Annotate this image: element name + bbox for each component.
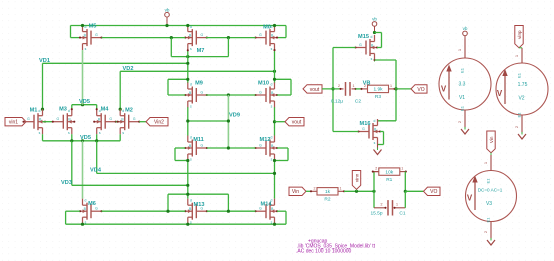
wire M7 gate to M0 gate (206, 37, 256, 39)
svg-text:s: s (190, 158, 192, 162)
svg-text:G: G (109, 117, 112, 121)
svg-text:2: 2 (314, 186, 316, 190)
svg-text:vb: vb (463, 26, 468, 31)
svg-text:M13: M13 (194, 202, 205, 208)
wire R1 right (404, 171, 407, 173)
wire vout stub (275, 121, 286, 123)
wire C1 up (404, 191, 406, 208)
wire M14 bracket drop (285, 211, 287, 224)
transistor M12 (256, 136, 278, 161)
svg-text:VO: VO (430, 189, 437, 195)
pin 1 V2 (521, 48, 523, 63)
junction bottom bus right (227, 210, 230, 213)
wire M9 source to M11 drain (187, 107, 189, 135)
wire riser right (227, 194, 229, 211)
svg-text:V1: V1 (459, 95, 465, 101)
wire M4 drain up (96, 105, 98, 110)
svg-text:vinp: vinp (517, 30, 522, 39)
svg-text:s: s (271, 105, 273, 109)
wire M10 bracket top (275, 78, 292, 80)
wire R1 down (404, 172, 406, 192)
wire ground rail (66, 223, 286, 225)
svg-text:G: G (362, 127, 365, 131)
wire diode link (168, 193, 228, 195)
wire down to C1 (373, 191, 375, 208)
wire M11 bracket bottom (175, 160, 188, 162)
svg-text:s: s (190, 47, 192, 51)
wire M11 source to M13 drain (187, 161, 189, 199)
svg-text:VD9: VD9 (229, 113, 240, 119)
svg-text:G: G (133, 117, 136, 121)
junction RC right (404, 190, 407, 193)
svg-text:G: G (200, 144, 203, 148)
wire M11 bracket left (174, 148, 176, 161)
svg-text:M6: M6 (88, 201, 96, 207)
wire M0 bulk stub (277, 37, 286, 39)
wire M9 bracket to bulk (168, 94, 185, 96)
junction VD1 (186, 62, 189, 65)
svg-text:d: d (190, 199, 192, 203)
wire M9 bracket left (167, 79, 169, 95)
junction VD5 top (81, 103, 84, 106)
svg-text:M1: M1 (30, 107, 38, 113)
wire M11 bracket (175, 147, 185, 149)
svg-text:d: d (39, 109, 41, 113)
resistor R1 rc top (373, 171, 379, 173)
svg-text:M11: M11 (193, 137, 204, 143)
junction vinn (355, 190, 358, 193)
svg-text:VD3: VD3 (61, 180, 72, 186)
wire vout to C2 (322, 88, 341, 90)
svg-text:vinn: vinn (354, 173, 359, 182)
svg-text:1.75: 1.75 (518, 82, 528, 88)
wire to M15 gate (333, 47, 356, 49)
transistor M6 (80, 199, 102, 224)
wire VD4 horizontal (97, 172, 275, 174)
svg-text:G: G (56, 117, 59, 121)
voltage source V2 (496, 63, 548, 115)
wire VD5 top horizontal (72, 104, 97, 106)
wire M5 bulk drop (70, 26, 72, 38)
wire R3 to VO (395, 88, 412, 90)
svg-text:1: 1 (396, 203, 398, 207)
svg-text:s: s (39, 131, 41, 135)
svg-text:1.9k: 1.9k (373, 87, 383, 93)
svg-text:G: G (359, 43, 362, 47)
svg-text:d: d (85, 199, 87, 203)
transistor M13 (185, 199, 207, 224)
svg-text:s: s (271, 158, 273, 162)
svg-text:d: d (190, 136, 192, 140)
wire vout feedback riser (332, 48, 334, 132)
svg-text:d: d (374, 119, 376, 123)
wire to M16 drain (378, 120, 397, 122)
wire M2 gate to Vin2 (139, 121, 146, 123)
wire up to R1 (373, 172, 375, 192)
svg-text:vout: vout (310, 87, 320, 93)
svg-text:V3: V3 (486, 201, 492, 207)
svg-text:3.3: 3.3 (459, 82, 466, 88)
junction M6 source rail (81, 223, 84, 226)
transistor M2 (118, 109, 140, 134)
transistor M9 (185, 83, 207, 108)
svg-text:d: d (122, 109, 124, 113)
power vb V1 (464, 36, 466, 39)
junction diode link (186, 193, 189, 196)
svg-text:d: d (68, 109, 70, 113)
junction M5 drain on rail (81, 24, 84, 27)
resistor R2 rc (311, 190, 317, 192)
wire Vin to R2 (306, 190, 311, 192)
svg-text:1: 1 (340, 186, 342, 190)
junction M7 drain loop (186, 55, 189, 58)
svg-text:VD2: VD2 (123, 66, 134, 72)
svg-text:vb: vb (372, 17, 377, 22)
wire M13 gate to M14 gate (207, 210, 256, 212)
transistor M10 (256, 83, 278, 108)
pin 2 V2 (521, 115, 523, 134)
junction M1 drain (41, 108, 44, 111)
svg-text:M9: M9 (195, 80, 203, 86)
junction VO mid (394, 87, 397, 90)
wire VB segment (356, 88, 362, 90)
svg-text:V: V (467, 194, 473, 203)
svg-text:1: 1 (353, 84, 355, 88)
svg-text:VD5: VD5 (80, 135, 91, 141)
svg-text:s: s (68, 131, 70, 135)
svg-text:V: V (497, 89, 503, 98)
wire loop right drop (227, 38, 229, 57)
svg-text:d: d (271, 136, 273, 140)
wire VD9 riser (227, 95, 229, 148)
wire M1 to M3 gate (43, 121, 53, 123)
svg-text:E1: E1 (517, 112, 522, 118)
ground V1 (461, 129, 469, 134)
svg-text:10k: 10k (385, 169, 393, 175)
svg-text:G: G (200, 33, 203, 37)
wire M5 bulk stub (71, 37, 81, 39)
svg-text:G: G (95, 33, 98, 37)
wire VD2 horizontal (120, 70, 274, 72)
wire M5 gate to M7 bulk (102, 37, 186, 39)
wire vb top rail (71, 25, 287, 27)
transistor M11 (185, 136, 207, 161)
wire Vin tick (490, 153, 492, 155)
svg-text:d: d (190, 25, 192, 29)
svg-text:vout: vout (292, 120, 302, 126)
svg-text:M5: M5 (89, 23, 97, 29)
svg-text:s: s (99, 131, 101, 135)
junction vb rail (165, 24, 168, 27)
pin 1 V3 (490, 155, 492, 171)
wire M15 bracket right (381, 33, 383, 48)
svg-text:vin1: vin1 (9, 120, 18, 126)
svg-text:E1: E1 (486, 217, 491, 223)
wire VD1 horizontal (43, 62, 188, 64)
wire VD1 vertical to M1 drain (42, 63, 44, 109)
ground M16 (374, 150, 382, 155)
wire M3 source down (71, 134, 73, 141)
wire M12 source to M14 drain (274, 161, 276, 199)
junction M0 source on rail (273, 24, 276, 27)
svg-text:1k: 1k (325, 189, 331, 195)
svg-text:V: V (441, 85, 447, 94)
power vb rail (166, 17, 168, 26)
pin end M7 drain (187, 49, 189, 51)
wire M16 bracket right (383, 132, 385, 145)
svg-text:Vin: Vin (292, 189, 299, 195)
svg-text:E1: E1 (517, 72, 522, 78)
junction gate bus right (227, 36, 230, 39)
wire M9 bracket top (168, 78, 188, 80)
svg-text:2: 2 (338, 84, 340, 88)
junction vb M15 (373, 31, 376, 34)
svg-text:s: s (85, 47, 87, 51)
wire riser left (167, 194, 169, 211)
wire M3 drain up (71, 105, 73, 110)
svg-text:R3: R3 (375, 94, 381, 100)
transistor M7 (185, 25, 207, 50)
global label vout left block (285, 118, 304, 126)
svg-text:DC=0 AC=1: DC=0 AC=1 (478, 187, 503, 192)
wire M10 bracket right (290, 79, 292, 95)
junction vout node (273, 120, 276, 123)
wire vinn tick (356, 189, 358, 191)
capacitor C2 C2 (345, 82, 347, 96)
wire M6 bracket drop (65, 211, 67, 224)
global label Vin rc (289, 187, 306, 195)
global label vinn (352, 171, 360, 190)
transistor M16 (359, 119, 381, 144)
global label vinp (515, 26, 523, 48)
svg-text:M7: M7 (197, 48, 205, 54)
svg-text:C1: C1 (399, 211, 405, 217)
wire M4 gate to M2 (116, 121, 121, 123)
ground V3 (487, 240, 495, 245)
wire VO riser (395, 60, 397, 121)
svg-text:vb: vb (165, 7, 170, 12)
wire to VO rc (405, 190, 423, 192)
transistor M14 (256, 199, 278, 224)
svg-text:s: s (371, 57, 373, 61)
svg-text:G: G (200, 91, 203, 95)
junction bottom bus (166, 210, 169, 213)
junction M7 source on rail (186, 24, 189, 27)
global label vout mid (303, 85, 322, 93)
junction tail M4 (95, 139, 98, 142)
junction M12 source (273, 159, 276, 162)
wire M4 source down (96, 134, 98, 141)
wire M15 source stub (374, 60, 376, 62)
svg-text:1: 1 (390, 84, 392, 88)
wire VD2 vertical to M2 drain (119, 71, 121, 109)
junction VD4 (273, 172, 276, 175)
resistor R3 mid (362, 88, 368, 90)
svg-text:M12: M12 (260, 137, 271, 143)
junction vout riser (331, 87, 334, 90)
svg-text:C2: C2 (355, 99, 361, 105)
junction VD9 riser (227, 119, 230, 122)
transistor M15 (356, 35, 378, 60)
svg-text:VD5: VD5 (79, 99, 90, 105)
svg-text:VD1: VD1 (39, 58, 50, 64)
svg-text:G: G (95, 207, 98, 211)
wire M12 bracket right (287, 148, 289, 161)
svg-text:G: G (259, 144, 262, 148)
svg-text:Vin2: Vin2 (154, 120, 164, 126)
wire M14 bulk bracket (277, 210, 286, 212)
junction M9 source (186, 119, 189, 122)
junction RC left (372, 190, 375, 193)
svg-text:2: 2 (364, 84, 366, 88)
junction M2 drain (119, 108, 122, 111)
svg-text:15.5p: 15.5p (370, 211, 382, 217)
wire riser to M6 drain (82, 141, 84, 199)
svg-text:s: s (374, 141, 376, 145)
svg-text:R2: R2 (324, 197, 330, 203)
transistor M1 (24, 109, 46, 134)
wire M15 bracket top (375, 32, 382, 34)
svg-text:M14: M14 (261, 202, 273, 208)
svg-text:M16: M16 (360, 121, 371, 127)
transistor M5 (80, 25, 102, 50)
svg-text:M4: M4 (101, 106, 110, 112)
svg-text:M2: M2 (125, 107, 133, 113)
wire to M16 gate (333, 131, 359, 133)
svg-text:E1: E1 (460, 67, 465, 73)
pin 2 V3 (490, 222, 492, 240)
svg-text:d: d (371, 35, 373, 39)
voltage source V1 (439, 58, 491, 110)
junction tail M3 (70, 139, 73, 142)
junction M9 bracket (186, 78, 189, 81)
wire M6 bulk bracket (66, 210, 80, 212)
junction M13 source rail (186, 223, 189, 226)
wire R2 to junction (344, 190, 374, 192)
svg-text:R1: R1 (386, 177, 392, 183)
svg-text:2: 2 (375, 167, 377, 171)
svg-text:d: d (85, 25, 87, 29)
wire riser to VD3 (71, 141, 73, 186)
wire M11 gate to M12 gate (207, 147, 256, 149)
voltage source V3 (466, 171, 517, 222)
junction VD9 bottom (227, 146, 230, 149)
power vb M15 (374, 26, 376, 32)
junction VD9 top (227, 93, 230, 96)
svg-text:M10: M10 (258, 80, 269, 86)
wire R1 left lead (374, 171, 379, 173)
svg-text:2: 2 (381, 203, 383, 207)
wire M0 bulk drop (285, 26, 287, 38)
svg-text:M3: M3 (59, 106, 67, 112)
pin 1 V1 (464, 39, 466, 59)
svg-text:0.12µ: 0.12µ (331, 99, 343, 105)
svg-text:d: d (190, 83, 192, 87)
capacitor C1 C1 (387, 200, 389, 215)
wire M16 source to gnd (377, 144, 379, 149)
global label Vin2 (146, 118, 168, 126)
global label VO rc (424, 187, 441, 195)
svg-text:V2: V2 (518, 96, 524, 102)
transistor M0 (256, 25, 278, 50)
wire M12 bracket bottom (275, 160, 289, 162)
svg-text:s: s (190, 105, 192, 109)
wire M9 gate to M10 gate (206, 94, 256, 96)
transistor M3 (53, 109, 75, 134)
wire M10 source to M12 drain (274, 107, 276, 135)
global label vin1 (5, 118, 26, 126)
wire M16 bracket (380, 131, 384, 133)
junction VD2 (273, 70, 276, 73)
junction M14 source rail (273, 223, 276, 226)
svg-text:VD4: VD4 (90, 167, 102, 173)
wire M1 source down (42, 134, 44, 141)
wire VD9 stub (188, 120, 229, 122)
wire tail horizontal (43, 140, 121, 142)
svg-text:M0: M0 (263, 24, 271, 30)
svg-text:G: G (259, 91, 262, 95)
junction tail mid (81, 139, 84, 142)
junction M10 bracket (273, 78, 276, 81)
svg-text:1: 1 (401, 167, 403, 171)
wire M7 drain down to M9 (187, 50, 189, 83)
wire VD3 horizontal (72, 184, 188, 186)
svg-text:s: s (122, 131, 124, 135)
wire M10 bracket to bulk (277, 94, 291, 96)
pin 2 V1 (464, 110, 466, 129)
svg-text:G: G (259, 33, 262, 37)
junction gate bus (170, 36, 173, 39)
svg-text:G: G (27, 117, 30, 121)
wire vinp tick (519, 47, 522, 49)
svg-text:.AC dec 100 10 1000000: .AC dec 100 10 1000000 (296, 249, 352, 255)
wire M2 source down (119, 134, 121, 141)
wire bottom gate bus (102, 210, 186, 212)
wire loop left drop (170, 38, 172, 57)
wire M15 source right (375, 59, 397, 61)
wire M15 bracket to bulk (377, 47, 382, 49)
svg-text:M15: M15 (358, 34, 369, 40)
svg-text:E1: E1 (460, 105, 465, 111)
junction M11 source (186, 159, 189, 162)
junction VD3 (186, 184, 189, 187)
wire loop bottom (171, 56, 228, 58)
wire M16 bracket bottom (378, 144, 384, 146)
ground V2 (518, 134, 526, 139)
wire riser to VD4 (96, 141, 98, 174)
transistor M4 (94, 109, 116, 134)
global label Vin V3 (487, 131, 495, 153)
svg-text:s: s (271, 47, 273, 51)
wire M0 drain to M10 drain (274, 49, 276, 83)
svg-text:E1: E1 (486, 178, 491, 184)
global label VO mid (411, 85, 427, 93)
svg-text:Vin: Vin (489, 136, 494, 143)
wire M5 source riser (82, 50, 84, 105)
svg-text:d: d (271, 83, 273, 87)
svg-text:VO: VO (417, 87, 424, 93)
wire M12 bracket (277, 147, 288, 149)
